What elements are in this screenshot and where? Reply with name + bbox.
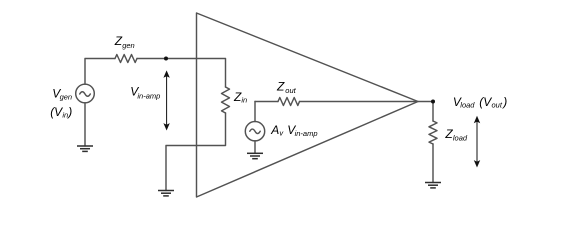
wire dep source to Zout — [255, 101, 278, 103]
svg-text:gen: gen — [122, 41, 135, 50]
resistor Zin — [222, 87, 230, 113]
annotation arrow Vload — [474, 116, 480, 168]
svg-text:(V: (V — [50, 105, 63, 119]
label Zin — [233, 90, 247, 104]
svg-text:(V: (V — [479, 95, 492, 109]
svg-text:): ) — [501, 95, 507, 109]
label Zout — [276, 80, 297, 95]
svg-text:load: load — [460, 100, 475, 109]
label (Vin) — [50, 105, 72, 119]
annotation arrow Vin-amp — [163, 70, 169, 130]
ground (Zload) — [425, 183, 441, 188]
voltage source Vgen — [76, 84, 95, 103]
node A (amp input) — [164, 57, 168, 61]
label Vin-amp (input voltage) — [130, 85, 160, 101]
label Vgen — [52, 86, 72, 101]
label Av Vin-amp (dependent source gain) — [270, 123, 317, 138]
label Zgen — [114, 34, 135, 50]
svg-text:Z: Z — [276, 80, 285, 94]
wire Vgen bottom to ground — [84, 103, 86, 146]
wire Vgen top to Zgen — [85, 59, 115, 85]
ground (dependent source) — [247, 153, 263, 158]
svg-text:A: A — [270, 123, 279, 137]
ground (Vgen) — [77, 146, 93, 151]
resistor Zgen — [115, 55, 137, 63]
wire Zload to ground — [432, 144, 434, 183]
label Zload — [444, 127, 468, 142]
dependent source Av Vin-amp — [245, 102, 264, 154]
svg-text:v: v — [279, 128, 284, 137]
wire Zout to output node through apex — [300, 101, 434, 103]
svg-text:load: load — [453, 134, 468, 143]
wire Zgen to node A — [137, 58, 166, 60]
wire output node down to Zload — [432, 102, 434, 122]
svg-text:gen: gen — [60, 93, 73, 102]
svg-text:in: in — [241, 96, 247, 105]
label Vload (Vout) — [453, 95, 507, 110]
svg-text:in-amp: in-amp — [295, 129, 318, 138]
svg-text:out: out — [285, 86, 296, 95]
ground (lower left) — [158, 191, 174, 196]
op-amp amplifier triangle — [197, 13, 419, 197]
svg-text:out: out — [492, 100, 503, 109]
resistor Zout — [278, 98, 300, 106]
wire Zin bottom to lower-left ground — [166, 113, 226, 191]
wire node A to Zin top corner — [166, 59, 226, 88]
node output — [431, 100, 435, 104]
svg-text:in-amp: in-amp — [137, 91, 160, 100]
resistor Zload — [429, 121, 437, 144]
